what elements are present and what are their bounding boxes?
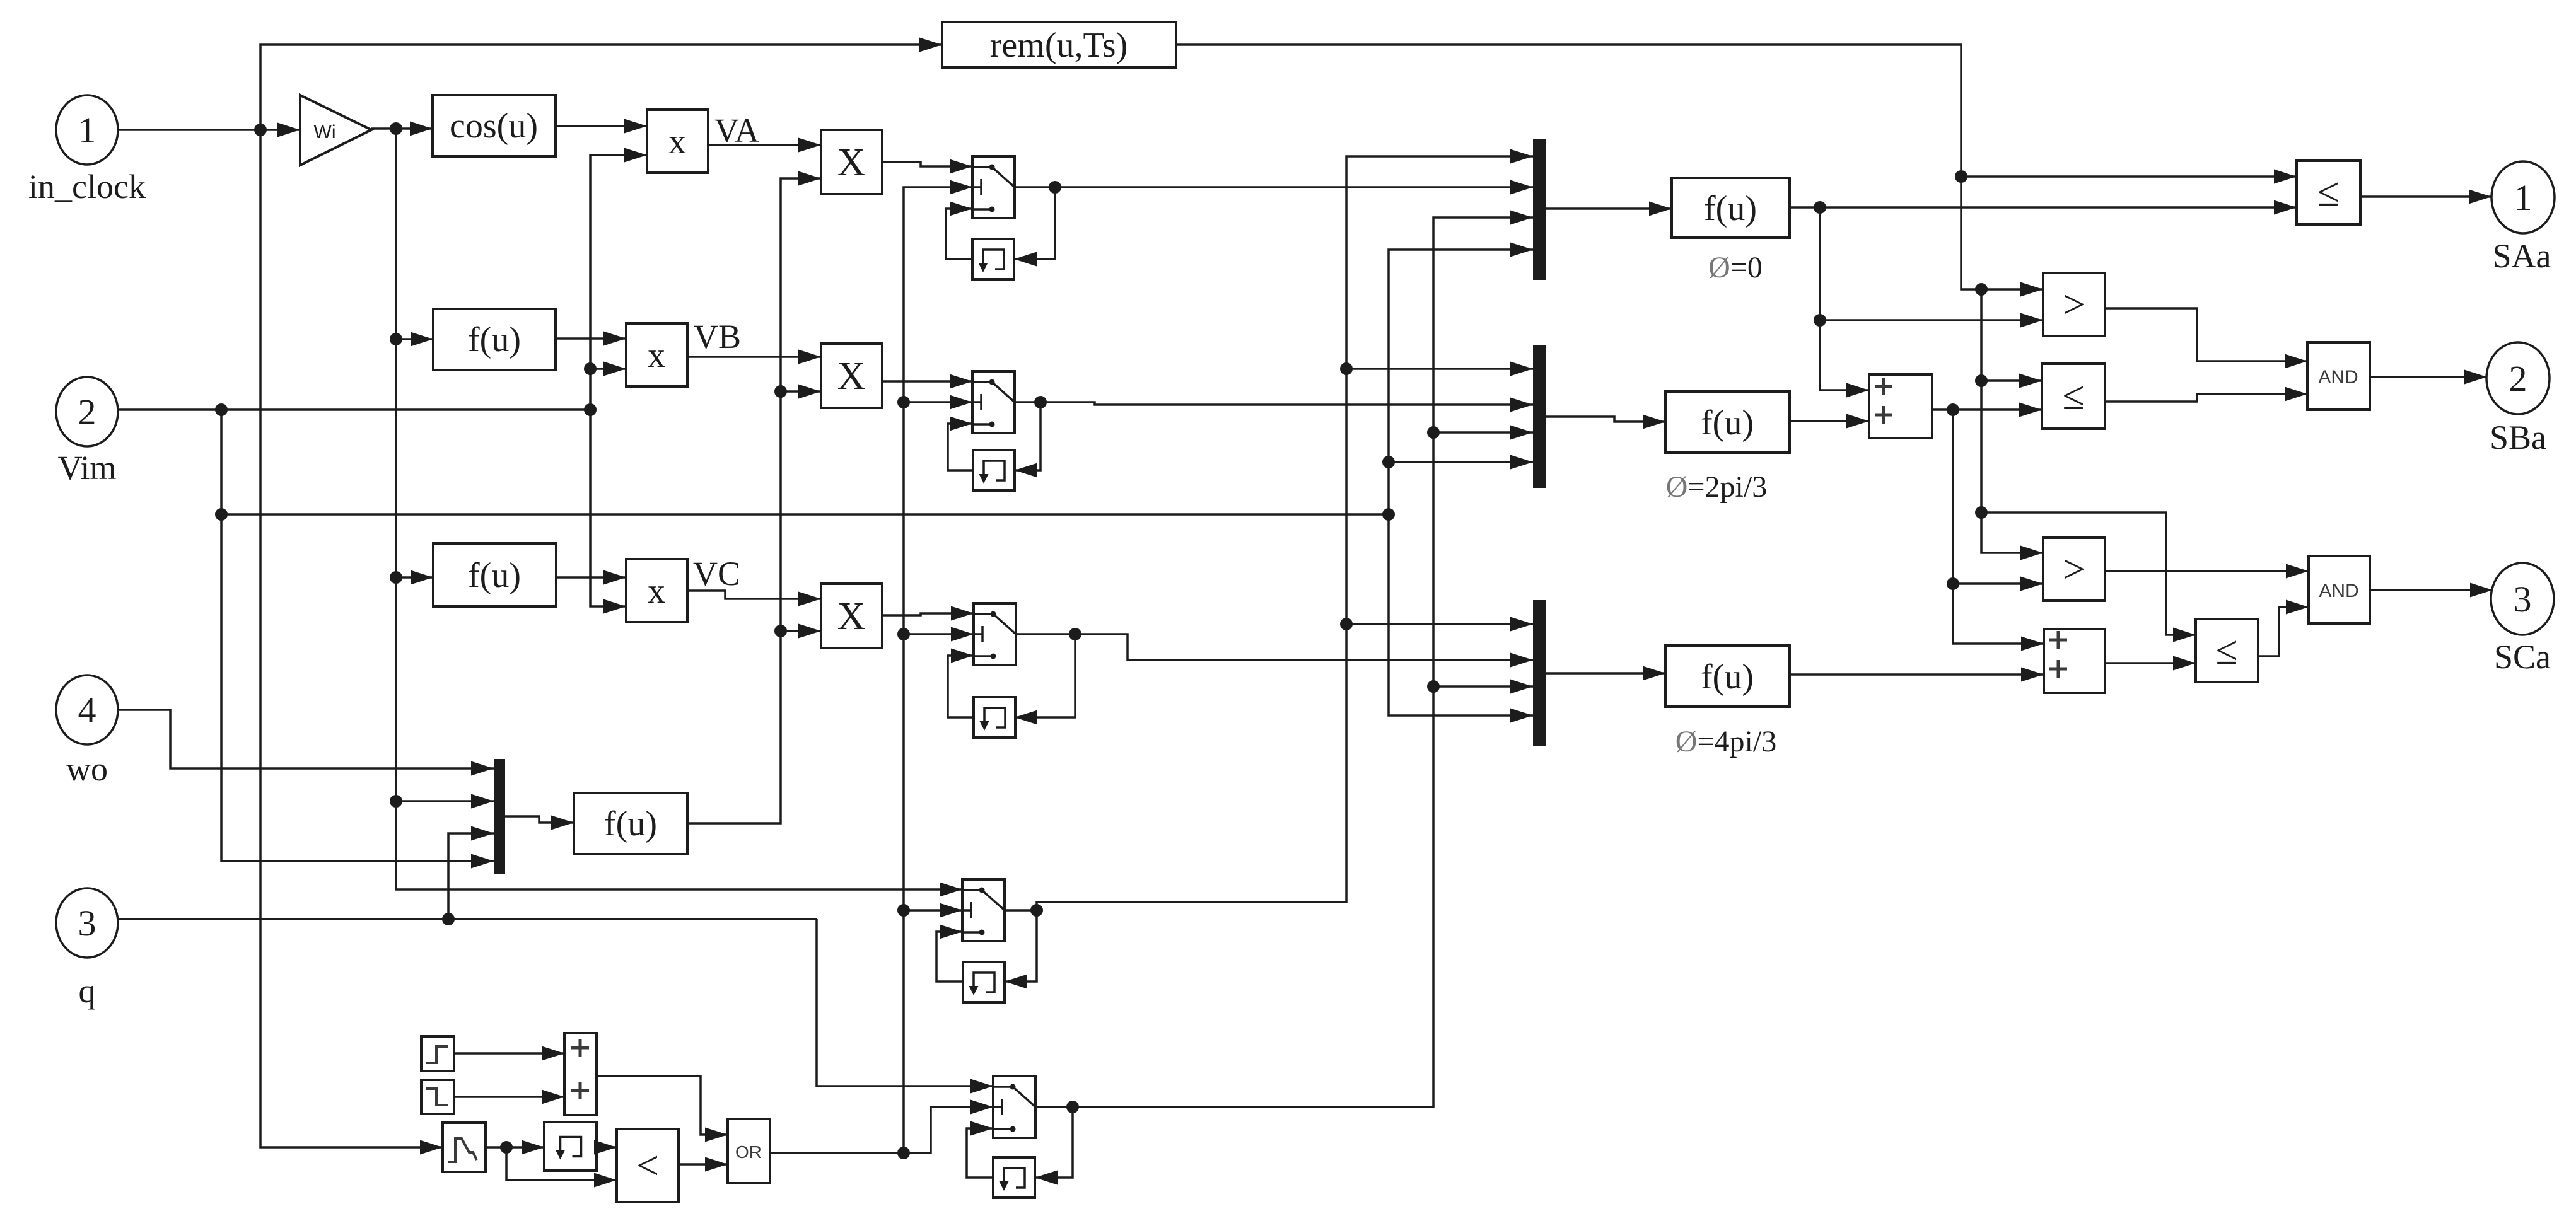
svg-text:<: < xyxy=(636,1143,659,1188)
wire control to SW2 in2 xyxy=(904,395,972,410)
wire SW2 output to mux2 in2 xyxy=(1015,396,1533,412)
wire LEQ-A to port SAa xyxy=(2360,190,2491,204)
cos(u) block xyxy=(433,95,556,156)
memory block M6 xyxy=(544,1122,597,1171)
wire carrier riser to XA2 in2 xyxy=(687,171,821,824)
svg-text:q: q xyxy=(79,972,96,1010)
wire in_clock down to rate limiter xyxy=(260,130,443,1155)
input port 2 Vim xyxy=(56,377,118,487)
svg-text:X: X xyxy=(837,595,866,638)
wire M2 to SW2 in3 xyxy=(948,417,973,471)
svg-text:2: 2 xyxy=(2509,358,2527,399)
f(u) block fcn1 xyxy=(433,309,556,370)
svg-text:SCa: SCa xyxy=(2494,638,2551,676)
switch block SW2 xyxy=(972,371,1015,433)
wire f(u)A column to GT-B in2 xyxy=(1814,207,2043,328)
wire control to SW4 in2 xyxy=(904,903,962,918)
input port 4 wo xyxy=(56,675,118,788)
svg-text:in_clock: in_clock xyxy=(28,168,146,206)
wire SW3 feedback to M3 xyxy=(1015,634,1075,725)
wire LEQ-C to AND-C in2 xyxy=(2258,600,2309,657)
sum block S3 xyxy=(564,1033,597,1115)
svg-text:≤: ≤ xyxy=(2215,628,2237,673)
f(u) block fcn2 xyxy=(433,543,556,606)
wire S3 to OR in1 xyxy=(597,1076,728,1142)
wire control to SW5 in2 xyxy=(904,1100,993,1154)
svg-text:x: x xyxy=(648,572,665,611)
svg-text:1: 1 xyxy=(2514,177,2532,218)
wire in_clock to Wi xyxy=(118,123,300,137)
svg-text:AND: AND xyxy=(2318,367,2358,388)
gain block Wi xyxy=(300,95,371,165)
wire M3 to SW3 in3 xyxy=(948,649,974,718)
svg-text:f(u): f(u) xyxy=(1701,403,1754,443)
product block XC2 xyxy=(821,584,882,648)
relational block LEQ-A xyxy=(2297,161,2360,224)
relational block GT-C xyxy=(2043,538,2105,601)
AND block C xyxy=(2309,556,2370,623)
wire Vim mux-column to mux3 in4 xyxy=(1389,514,1533,723)
f(u) block phase C xyxy=(1665,646,1790,707)
wire SW5 output column xyxy=(1035,211,1533,1114)
wire Vim mux-column to mux1 in4 xyxy=(1389,243,1533,515)
wire VC to XC2 in1 xyxy=(687,591,821,606)
wire LEQ-B to AND-B in2 xyxy=(2105,387,2307,402)
wire VB to XB2 in1 xyxy=(687,350,821,364)
svg-text:f(u): f(u) xyxy=(468,556,521,595)
wire SW2 feedback to M2 xyxy=(1015,402,1040,478)
svg-text:x: x xyxy=(668,122,686,161)
svg-text:X: X xyxy=(837,141,866,184)
wire f(u)C to sum S2 in2 xyxy=(1790,668,2044,682)
memory block M3 xyxy=(974,697,1015,738)
wire OR output control column xyxy=(770,180,972,1160)
svg-text:OR: OR xyxy=(735,1142,762,1162)
wire ramp column to LEQ-C in1 xyxy=(1981,512,2196,642)
wire GT-B to AND-B in1 xyxy=(2105,308,2307,369)
wire ramp column to LEQ-B in1 xyxy=(1975,289,2042,388)
product block xA xyxy=(647,110,708,173)
wire AND-B to port SBa xyxy=(2370,370,2487,385)
svg-text:1: 1 xyxy=(78,110,96,151)
mux mux4 xyxy=(494,759,505,874)
svg-text:f(u): f(u) xyxy=(604,804,657,843)
wire Wi column to fcn1 xyxy=(390,129,433,347)
relational block LT xyxy=(617,1129,679,1202)
wire Wi column to switch SW4 in1 xyxy=(396,801,962,897)
svg-text:Ø=2pi/3: Ø=2pi/3 xyxy=(1666,470,1767,504)
wire ramp column to GT-C in1 xyxy=(1975,381,2043,560)
AND block B xyxy=(2307,342,2370,410)
wire GT-C to AND-C in1 xyxy=(2105,564,2309,579)
output port 2 SBa xyxy=(2486,342,2550,456)
svg-text:>: > xyxy=(2063,282,2085,327)
memory block M4 xyxy=(963,962,1005,1002)
wire S1 to LEQ-B in2 xyxy=(1932,403,2042,417)
svg-text:wo: wo xyxy=(66,750,108,788)
svg-text:f(u): f(u) xyxy=(468,320,521,359)
product block XA2 xyxy=(821,130,882,194)
wire Vim column down to mux4 in4 xyxy=(215,410,494,869)
svg-text:VC: VC xyxy=(693,555,740,593)
svg-text:3: 3 xyxy=(2514,579,2532,620)
svg-text:3: 3 xyxy=(78,903,96,944)
wire rate limiter branch to LT in2 xyxy=(506,1147,617,1188)
svg-text:SBa: SBa xyxy=(2490,419,2546,456)
svg-text:4: 4 xyxy=(78,690,96,731)
svg-text:cos(u): cos(u) xyxy=(450,107,538,146)
wire Vim to riser xyxy=(118,403,597,416)
wire Vim branch to mux column xyxy=(221,508,1395,521)
svg-text:Vim: Vim xyxy=(58,449,117,487)
svg-text:≤: ≤ xyxy=(2062,373,2084,418)
input port 3 q xyxy=(56,888,118,1010)
wire Vim riser to xB in2 xyxy=(590,362,626,376)
wire q to SW5 in1 xyxy=(817,919,993,1094)
wire step down to sum S3 in2 xyxy=(454,1090,564,1104)
rate limiter block xyxy=(443,1123,486,1172)
wire M1 to SW1 in3 xyxy=(946,202,972,260)
switch block SW5 xyxy=(993,1076,1035,1138)
svg-text:VA: VA xyxy=(714,112,759,149)
wire fcn2 to xC in1 xyxy=(556,570,626,585)
f(u) block phase B xyxy=(1665,391,1790,453)
memory block M1 xyxy=(972,239,1014,279)
wire control to SW3 in2 xyxy=(904,627,974,642)
mux mux2 xyxy=(1533,345,1546,488)
svg-text:VB: VB xyxy=(694,318,741,356)
step source up xyxy=(421,1036,454,1071)
wire S1 column to sum S2 in1 xyxy=(1953,584,2044,651)
wire XA2 to SW1 in1 xyxy=(882,159,972,174)
f(u) block phase A xyxy=(1672,178,1790,238)
svg-text:f(u): f(u) xyxy=(1701,657,1754,697)
wire mux1 to f(u) phase A xyxy=(1546,202,1672,216)
svg-text:f(u): f(u) xyxy=(1704,189,1757,228)
svg-text:rem(u,Ts): rem(u,Ts) xyxy=(990,26,1128,65)
wire carrier riser to XB2 in2 xyxy=(781,385,821,399)
wire SW4 column to mux3 in1 xyxy=(1346,617,1533,632)
output port 3 SCa xyxy=(2491,563,2554,676)
wire SW3 output to mux3 in2 xyxy=(1015,628,1533,668)
wire S2 to LEQ-C in2 xyxy=(2105,656,2196,671)
wire step up to sum S3 in1 xyxy=(454,1046,564,1061)
wire Vim mux-column to mux2 in4 xyxy=(1382,455,1533,470)
wire Wi column to fcn2 xyxy=(390,339,433,585)
wire f(u)B to sum S1 in2 xyxy=(1790,414,1869,429)
wire AND-C to port SCa xyxy=(2370,583,2493,598)
wire mux3 to f(u) phase C xyxy=(1546,666,1665,681)
wire f(u)A column to sum S1 in1 xyxy=(1820,320,1869,398)
relational block LEQ-B xyxy=(2042,364,2105,429)
relational block LEQ-C xyxy=(2196,619,2258,682)
wire mux2 to f(u) phase B xyxy=(1546,415,1665,429)
switch block SW3 xyxy=(974,603,1016,665)
wire rate limiter to memory M6 xyxy=(486,1140,544,1155)
output port 1 SAa xyxy=(2491,161,2555,275)
memory block M2 xyxy=(973,450,1015,490)
wire SW4 feedback to M4 xyxy=(1005,910,1037,989)
svg-text:≤: ≤ xyxy=(2317,170,2339,214)
OR block xyxy=(728,1119,770,1183)
wire q line xyxy=(119,913,817,925)
wire M4 to SW4 in3 xyxy=(936,925,963,982)
wire SW4 column to mux2 in1 xyxy=(1346,362,1533,376)
wire SW5 feedback to M5 xyxy=(1035,1107,1073,1185)
svg-text:2: 2 xyxy=(78,391,96,432)
wire SW5 column to mux3 in3 xyxy=(1433,680,1533,694)
step source down xyxy=(421,1080,454,1114)
rem(u,Ts) block xyxy=(942,22,1176,67)
wire XB2 to SW2 in1 xyxy=(882,374,972,389)
svg-text:Ø=0: Ø=0 xyxy=(1708,251,1763,284)
wire in_clock up to rem xyxy=(260,38,942,130)
svg-text:X: X xyxy=(837,355,866,398)
wire cos output to xA xyxy=(556,119,647,134)
svg-text:AND: AND xyxy=(2319,581,2358,601)
product block xC xyxy=(626,559,687,622)
svg-text:SAa: SAa xyxy=(2493,237,2551,275)
relational block GT-B xyxy=(2043,273,2105,336)
mux mux3 xyxy=(1533,600,1546,746)
svg-text:Ø=4pi/3: Ø=4pi/3 xyxy=(1676,725,1776,758)
product block xB xyxy=(626,323,687,386)
input port 1 in_clock xyxy=(28,95,146,206)
sum block S2 xyxy=(2044,629,2105,693)
wire VA to XA2 in1 xyxy=(708,138,821,153)
switch block SW4 xyxy=(962,879,1005,941)
wire Vim riser to xA in2 xyxy=(584,148,647,410)
f(u) block lower-left xyxy=(574,793,687,854)
memory block M5 xyxy=(993,1157,1035,1198)
wire wo to mux4 in1 xyxy=(118,710,494,776)
wire M5 to SW5 in3 xyxy=(967,1121,993,1178)
wire S1 column to GT-C in2 xyxy=(1947,410,2043,591)
wire carrier riser to XC2 in2 xyxy=(781,624,821,639)
wire Wi column to mux4 in2 xyxy=(390,577,494,809)
sum block S1 xyxy=(1869,374,1932,438)
mux mux1 xyxy=(1533,139,1546,280)
wire SW1 feedback to M1 xyxy=(1014,187,1055,267)
wire SW4 output column xyxy=(1005,149,1533,917)
switch block SW1 xyxy=(972,156,1015,218)
wire Wi output to cos xyxy=(371,122,433,136)
wire ramp column to GT-B in1 xyxy=(1961,177,2043,297)
svg-text:x: x xyxy=(648,336,665,375)
wire f(u)A to LEQ-A in2 xyxy=(1790,200,2297,215)
wire rem output to LEQ-A in1 xyxy=(1176,45,2297,184)
product block XB2 xyxy=(821,344,882,408)
wire q to mux4 in3 xyxy=(448,826,494,920)
wire mux4 to f(u) lower-left xyxy=(505,816,574,830)
wire fcn1 to xB in1 xyxy=(556,332,626,346)
wire Vim riser down to xC in2 xyxy=(590,410,626,614)
wire SW1 output to mux1 in2 xyxy=(1015,180,1533,195)
svg-text:>: > xyxy=(2063,547,2085,591)
svg-text:Wi: Wi xyxy=(314,122,336,142)
wire LT to OR in2 xyxy=(679,1157,728,1172)
wire M6 to LT in1 xyxy=(594,1140,617,1155)
wire XC2 to SW3 in1 xyxy=(882,606,974,621)
wire SW5 column to mux2 in3 xyxy=(1433,426,1533,440)
